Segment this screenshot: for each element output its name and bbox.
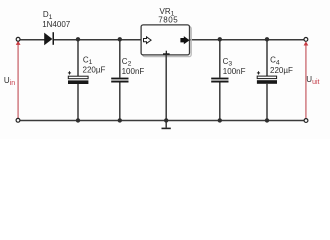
regulator U=VR1 box with shadow bbox=[141, 25, 191, 57]
input terminal top (open circle) bbox=[16, 37, 20, 41]
svg-text:1N4007: 1N4007 bbox=[42, 20, 71, 29]
Uuit arrowhead (red, up) bbox=[304, 41, 309, 45]
capacitor C4 (electrolytic 220uF) bbox=[257, 40, 277, 121]
svg-text:100nF: 100nF bbox=[122, 67, 145, 76]
Uin source line (red) bbox=[17, 44, 19, 118]
capacitor C2 (ceramic 100nF) bbox=[111, 40, 128, 121]
junction dot C4 bottom bbox=[265, 118, 269, 122]
svg-text:220µF: 220µF bbox=[83, 65, 106, 74]
capacitor C3 (ceramic 100nF) bbox=[211, 40, 228, 121]
output terminal bottom (open circle) bbox=[304, 119, 308, 123]
junction dot C3 bottom bbox=[218, 118, 222, 122]
ground symbol below rail bbox=[162, 121, 171, 129]
svg-text:Uin: Uin bbox=[4, 76, 15, 87]
wire: bottom ground rail bbox=[20, 120, 305, 122]
junction dot C2 bottom bbox=[118, 118, 122, 122]
output terminal top (open circle) bbox=[304, 38, 308, 42]
C4 polarity plus sign bbox=[257, 71, 260, 74]
wire: top rail from input terminal to diode anode bbox=[20, 39, 45, 41]
regulator input pin arrow (hollow) bbox=[144, 37, 152, 44]
wire: regulator ground pin down to rail bbox=[165, 55, 167, 121]
regulator output pin arrow (solid) bbox=[181, 37, 189, 44]
junction dot C2 top bbox=[118, 37, 122, 41]
svg-text:C4: C4 bbox=[270, 56, 280, 67]
junction dot C1 bottom bbox=[76, 118, 80, 122]
junction dot regulator ground at rail bbox=[164, 118, 168, 122]
diode D1 bbox=[44, 32, 54, 45]
Uuit output line (red) bbox=[305, 45, 307, 119]
Uin arrowhead (red, up) bbox=[16, 41, 21, 45]
junction dot C4 top bbox=[265, 37, 269, 41]
wire: diode cathode to regulator input bbox=[54, 39, 142, 41]
capacitor C1 (electrolytic 220uF) bbox=[68, 40, 88, 121]
svg-text:Uuit: Uuit bbox=[306, 75, 319, 86]
junction dot C1 top bbox=[76, 37, 80, 41]
svg-text:100nF: 100nF bbox=[223, 67, 246, 76]
C1 polarity plus sign bbox=[68, 71, 71, 74]
junction dot C3 top bbox=[218, 37, 222, 41]
input terminal bottom (open circle) bbox=[16, 118, 20, 122]
svg-text:7805: 7805 bbox=[158, 15, 178, 24]
svg-text:220µF: 220µF bbox=[270, 66, 293, 75]
wire: regulator output to output terminal bbox=[189, 39, 304, 41]
svg-text:C3: C3 bbox=[223, 57, 233, 68]
regulator internal ground glyph bbox=[163, 51, 170, 55]
